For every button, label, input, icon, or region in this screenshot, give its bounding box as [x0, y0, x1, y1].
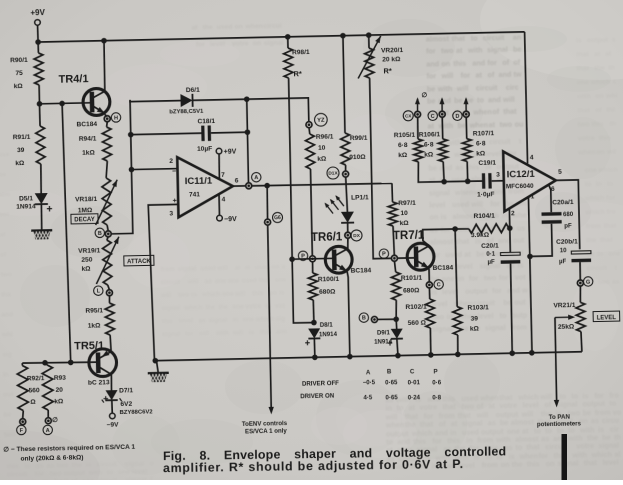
svg-text:in: in [447, 312, 454, 321]
variable resistor VR21 [576, 302, 585, 331]
svg-text:25kΩ: 25kΩ [558, 323, 575, 330]
svg-text:will: will [234, 290, 246, 297]
C18 row right [211, 131, 247, 134]
svg-text:10: 10 [400, 210, 408, 217]
VR20 wire top [368, 35, 370, 48]
wire G to VR21 [579, 286, 582, 302]
pin 7 wire [218, 154, 221, 179]
resistor R96 [305, 134, 315, 169]
pin6 wire [549, 185, 552, 213]
svg-text:ou: ou [515, 120, 524, 129]
svg-text:level: level [478, 311, 494, 320]
junction C20/ground rail [509, 350, 515, 356]
+9V terminal IC11 [216, 148, 237, 156]
svg-text:fro: fro [606, 209, 615, 216]
svg-text:of: of [502, 58, 510, 67]
junction vert247/D6 row [244, 96, 250, 102]
svg-text:for: for [492, 286, 502, 295]
svg-text:on: on [546, 459, 555, 468]
wire D1X to LP1 [346, 177, 348, 212]
svg-text:in: in [385, 403, 392, 412]
svg-text:and: and [498, 236, 511, 245]
svg-text:whi: whi [605, 93, 618, 100]
svg-text:to: to [191, 291, 197, 298]
svg-text:to: to [515, 443, 523, 452]
resistor R95 [105, 303, 114, 335]
svg-text:on: on [234, 23, 242, 30]
svg-text:o: o [150, 460, 154, 467]
svg-text:out: out [513, 236, 525, 245]
svg-text:A: A [254, 175, 258, 181]
svg-text:with: with [576, 93, 591, 100]
svg-text:wil: wil [606, 149, 616, 156]
svg-text:two: two [598, 279, 610, 286]
svg-text:and: and [439, 163, 452, 172]
node YZ terminal [306, 122, 312, 128]
junction P6 [289, 256, 295, 262]
wire VR19 to L [108, 285, 110, 290]
svg-text:TR7/1: TR7/1 [393, 230, 425, 243]
svg-text:kΩ: kΩ [15, 160, 25, 167]
wire DX to TR6 collector [347, 238, 350, 249]
svg-text:a: a [281, 264, 285, 271]
svg-text:680: 680 [563, 211, 574, 218]
svg-text:TR6/1: TR6/1 [311, 231, 343, 244]
svg-text:as: as [591, 416, 599, 425]
node D1X terminal [343, 171, 349, 177]
svg-text:of: of [513, 58, 521, 67]
svg-text:R*: R* [293, 69, 302, 78]
svg-text:10: 10 [560, 247, 568, 254]
svg-text:−9V: −9V [107, 422, 120, 429]
svg-text:that: that [442, 402, 456, 411]
svg-text:C: C [410, 368, 415, 375]
svg-text:6·8: 6·8 [476, 140, 486, 147]
R98 vertical [287, 37, 289, 48]
C20b bottom wire [579, 262, 581, 280]
svg-text:kΩ: kΩ [398, 152, 408, 159]
svg-text:on: on [269, 290, 277, 297]
TR7 emitter wire [428, 269, 430, 282]
TR5 collector to D7 [110, 374, 113, 390]
svg-text:R93: R93 [54, 375, 67, 382]
svg-text:us: us [517, 224, 526, 233]
svg-text:circuit: circuit [97, 461, 118, 468]
svg-text:to: to [500, 311, 508, 320]
svg-text:sig: sig [276, 316, 285, 323]
svg-text:will: will [440, 71, 453, 80]
svg-text:circu: circu [602, 416, 619, 425]
svg-text:with: with [437, 84, 453, 93]
svg-text:in: in [3, 371, 9, 378]
svg-text:level: level [456, 262, 472, 271]
svg-text:for: for [185, 330, 194, 337]
svg-text:as: as [205, 278, 213, 285]
svg-text:G6: G6 [274, 215, 281, 221]
node P6 circle [298, 251, 308, 261]
svg-text:910Ω: 910Ω [349, 154, 366, 161]
svg-text:µF: µF [487, 259, 495, 266]
svg-text:4·5: 4·5 [363, 394, 373, 401]
wire R96 to P6 [311, 169, 313, 256]
svg-text:two: two [57, 462, 69, 469]
junction vert131/C18 row [128, 132, 134, 138]
node G terminal [577, 280, 583, 286]
ground below D5 [31, 230, 52, 239]
R104 left wire [455, 228, 469, 230]
svg-text:VR18/1: VR18/1 [75, 196, 97, 203]
junction pin3/ground rail [152, 358, 158, 364]
resistor R99 [341, 133, 350, 165]
svg-text:this: this [592, 121, 604, 128]
zener diode D7 [102, 390, 122, 403]
wire B2 to D9 [395, 319, 397, 329]
junction R107/C19 row [465, 178, 471, 184]
junction R90/R91/base [37, 101, 43, 107]
svg-text:kΩ: kΩ [14, 83, 24, 90]
svg-text:level: level [442, 287, 458, 296]
svg-text:and: and [1, 311, 13, 318]
R100 wire top [311, 262, 313, 273]
svg-text:be: be [476, 249, 485, 258]
TR6 base wire [292, 257, 333, 260]
node C2 terminal [439, 111, 445, 117]
svg-text:only (20kΩ & 6·8kΩ): only (20kΩ & 6·8kΩ) [20, 454, 83, 462]
svg-text:the: the [205, 304, 215, 311]
node DX circle [351, 230, 362, 241]
svg-text:with: with [467, 45, 483, 54]
svg-text:and: and [488, 95, 501, 104]
svg-text:A: A [46, 428, 50, 434]
svg-text:as: as [36, 463, 44, 470]
R106 wire top [441, 117, 443, 139]
svg-text:which: which [584, 195, 604, 202]
svg-text:R*: R* [383, 66, 392, 75]
svg-text:10: 10 [318, 145, 326, 152]
junction rail/VR20 [366, 32, 372, 38]
wire rail to IC12 pin4 [525, 32, 528, 164]
svg-text:kΩ: kΩ [54, 398, 64, 405]
svg-text:−9V: −9V [224, 216, 237, 223]
svg-text:R105/1: R105/1 [394, 132, 416, 139]
node P6 terminal [309, 256, 315, 262]
VR19 arrow [95, 237, 119, 284]
svg-text:on: on [429, 212, 438, 221]
svg-text:to: to [107, 469, 114, 476]
svg-text:with: with [88, 469, 103, 476]
svg-text:signal: signal [462, 418, 483, 427]
svg-text:kΩ: kΩ [476, 150, 486, 157]
svg-text:the: the [512, 460, 523, 469]
svg-text:R106/1: R106/1 [419, 131, 441, 138]
svg-text:at: at [464, 250, 471, 259]
svg-text:of: of [544, 400, 552, 409]
svg-text:and: and [507, 286, 520, 295]
svg-text:the: the [202, 24, 213, 31]
svg-text:s: s [612, 37, 616, 44]
svg-text:this: this [453, 59, 466, 68]
svg-text:P: P [382, 252, 386, 258]
svg-text:BC184: BC184 [351, 267, 372, 274]
svg-text:R100/1: R100/1 [318, 276, 340, 283]
node D2 arrow [463, 97, 468, 111]
svg-text:signal: signal [264, 40, 284, 47]
LEVEL box [593, 311, 620, 322]
svg-text:output: output [64, 470, 86, 477]
resistor R100 [308, 273, 317, 300]
transistor TR6 BC184 [325, 246, 352, 273]
svg-text:R107/1: R107/1 [473, 130, 495, 137]
svg-text:votre: votre [578, 135, 595, 142]
svg-text:signal: signal [598, 441, 619, 450]
svg-text:this: this [162, 318, 174, 325]
C19 to pin3 [492, 180, 504, 182]
svg-text:that: that [420, 419, 434, 428]
VR21 bottom wire [580, 332, 583, 352]
svg-text:which: which [598, 167, 618, 174]
svg-text:level: level [210, 41, 225, 48]
TR6 emitter wire [347, 272, 350, 357]
svg-text:vot: vot [275, 303, 286, 310]
svg-text:this: this [466, 162, 479, 171]
svg-text:at: at [442, 108, 449, 117]
svg-text:and: and [426, 59, 439, 68]
TR4 emitter wire [105, 114, 107, 117]
svg-text:1MΩ: 1MΩ [78, 207, 93, 214]
lamp LP1 [324, 195, 354, 223]
junction rail/R90 [35, 39, 41, 45]
svg-text:out: out [3, 391, 14, 398]
svg-text:VR19/1: VR19/1 [78, 247, 100, 254]
svg-text:from: from [511, 322, 527, 331]
node P7 terminal [391, 255, 397, 261]
resistor R92 [17, 365, 28, 410]
svg-text:level: level [429, 200, 445, 209]
svg-text:BZY88C6V2: BZY88C6V2 [120, 409, 154, 416]
svg-text:DECAY: DECAY [74, 217, 95, 223]
svg-text:at: at [488, 401, 495, 410]
ToPAN arrowhead [554, 400, 560, 408]
svg-text:for: for [426, 71, 436, 80]
output row [252, 183, 392, 186]
svg-text:LP1/1: LP1/1 [351, 194, 369, 201]
svg-text:one: one [243, 316, 255, 323]
pin2 wire [508, 208, 511, 252]
R102 wire bottom [429, 328, 432, 355]
svg-text:almost: almost [125, 476, 148, 480]
R105 wire bottom [418, 160, 483, 182]
svg-text:two: two [4, 431, 15, 438]
svg-text:ES/VCA 1 only: ES/VCA 1 only [245, 428, 288, 436]
resistor R101 [391, 272, 400, 300]
svg-text:to: to [471, 33, 479, 42]
svg-text:that: that [604, 223, 617, 230]
svg-text:two: two [461, 402, 474, 411]
svg-text:7: 7 [221, 172, 225, 179]
pin2 row [131, 168, 177, 171]
junction R102/ground rail [428, 352, 434, 358]
wire R92 to F [22, 411, 25, 419]
node B2 stub [377, 318, 396, 321]
node A2 terminal [45, 418, 51, 424]
op-amp IC12 MFC6040 [503, 150, 556, 211]
svg-text:level: level [485, 149, 501, 158]
svg-text:2: 2 [511, 210, 515, 217]
svg-text:use: use [0, 151, 10, 158]
transistor TR7 BC184 [407, 243, 434, 270]
svg-text:DRIVER OFF: DRIVER OFF [302, 380, 339, 388]
svg-text:for: for [35, 471, 45, 478]
ToENV arrowhead [268, 407, 274, 415]
svg-text:output: output [465, 286, 488, 295]
svg-text:C20b/1: C20b/1 [556, 238, 578, 245]
junction pin1/C20a [527, 254, 533, 260]
svg-text:signal: signal [432, 324, 453, 333]
svg-text:output: output [582, 399, 605, 408]
svg-text:from: from [482, 460, 498, 469]
op-amp IC11 741 [177, 156, 233, 217]
svg-text:C20a/1: C20a/1 [552, 199, 574, 206]
svg-text:10µF: 10µF [197, 146, 212, 153]
R106 wire bottom [442, 162, 445, 182]
svg-text:which: which [584, 209, 604, 216]
svg-text:as: as [488, 418, 496, 427]
svg-text:0·65: 0·65 [385, 379, 398, 386]
svg-text:for: for [606, 195, 616, 202]
svg-text:two: two [441, 46, 454, 55]
svg-text:this: this [527, 459, 540, 468]
wire B to VR19 [107, 237, 109, 240]
svg-text:be: be [454, 96, 463, 105]
svg-text:signal: signal [161, 305, 180, 312]
svg-text:one: one [232, 303, 244, 310]
svg-text:alm: alm [276, 329, 287, 336]
svg-text:used: used [452, 200, 469, 209]
svg-text:almost: almost [511, 417, 535, 426]
svg-text:−0·5: −0·5 [363, 379, 376, 386]
TR7 base wire [397, 257, 415, 259]
svg-text:TR4/1: TR4/1 [58, 73, 88, 86]
svg-text:when: when [454, 188, 474, 197]
resistor R90 [34, 53, 43, 85]
node G6 circle [272, 212, 282, 222]
svg-text:6V2: 6V2 [120, 401, 132, 408]
wire B to vert131 [108, 100, 132, 234]
svg-text:in: in [596, 181, 602, 188]
node B2 terminal [371, 316, 377, 322]
svg-text:C: C [431, 114, 435, 120]
svg-text:c: c [613, 79, 617, 86]
pin 6 output wire [233, 185, 246, 187]
svg-text:tha: tha [1, 291, 11, 298]
svg-text:D9/1: D9/1 [377, 329, 391, 336]
figure caption line 1 [163, 444, 506, 463]
svg-text:VR21/1: VR21/1 [553, 302, 575, 309]
svg-text:250: 250 [81, 257, 92, 264]
node H terminal [104, 116, 110, 122]
R101 wire bottom [395, 300, 398, 319]
page rule bar bottom right [562, 434, 568, 480]
node C circle [434, 280, 444, 290]
ATTACK box [124, 255, 154, 266]
svg-text:be: be [427, 84, 436, 93]
resistor R102 [425, 299, 434, 328]
svg-text:one: one [118, 469, 130, 476]
svg-text:two: two [578, 121, 590, 128]
svg-text:alm: alm [0, 191, 10, 198]
svg-text:BC184: BC184 [76, 121, 97, 128]
svg-text:741: 741 [189, 191, 200, 198]
node B terminal [105, 231, 111, 237]
svg-text:for: for [460, 71, 470, 80]
svg-text:DX: DX [353, 233, 361, 239]
junction R93 top [42, 360, 48, 366]
svg-text:two: two [500, 120, 513, 129]
svg-text:be: be [427, 96, 436, 105]
resistor R106 [438, 139, 447, 162]
svg-text:level: level [522, 400, 538, 409]
node L circle [94, 286, 104, 296]
resistor R97 [388, 202, 397, 226]
capacitor C20 electrolytic [501, 252, 521, 264]
svg-text:R92/1: R92/1 [27, 375, 45, 382]
svg-text:out: out [514, 298, 526, 307]
svg-text:for: for [487, 58, 497, 67]
svg-text:votre: votre [576, 441, 594, 450]
svg-text:from: from [586, 223, 601, 230]
capacitor C19 [482, 173, 492, 189]
node H circle [111, 113, 121, 123]
svg-text:vot: vot [0, 211, 10, 218]
svg-text:R97/1: R97/1 [398, 200, 416, 207]
svg-text:for: for [426, 46, 436, 55]
svg-text:two: two [502, 249, 515, 258]
wire +9V to rail [37, 25, 40, 42]
diode D9 [387, 329, 403, 346]
svg-text:R104/1: R104/1 [473, 213, 495, 220]
node A2 circle [43, 425, 53, 435]
svg-text:one: one [442, 274, 455, 283]
svg-text:4: 4 [530, 154, 534, 161]
svg-text:that: that [456, 237, 470, 246]
wire vert131 top to D6 row [130, 99, 181, 102]
node CX terminal [415, 111, 421, 117]
resistor R105 [414, 139, 423, 162]
svg-text:almost: almost [426, 34, 450, 43]
svg-text:will: will [470, 199, 483, 208]
svg-text:w: w [521, 285, 528, 294]
svg-text:be: be [0, 171, 7, 178]
variable resistor VR20 [365, 48, 374, 78]
TR4 base wire [39, 103, 90, 104]
node C2 circle [428, 111, 438, 121]
svg-text:level: level [603, 458, 619, 467]
C20 bottom wire [510, 264, 512, 354]
svg-text:which: which [183, 304, 202, 311]
resistor R107 [462, 139, 471, 162]
svg-text:is: is [265, 303, 271, 310]
svg-text:3: 3 [496, 172, 500, 179]
svg-text:votre: votre [499, 401, 517, 410]
R107 wire bottom [466, 161, 469, 181]
svg-text:signal: signal [178, 265, 197, 272]
wire R90 bottom [38, 85, 40, 104]
node CX arrow [415, 97, 420, 111]
svg-text:R103/1: R103/1 [467, 304, 489, 311]
diode D8 [305, 328, 321, 345]
junction base/vert62 [59, 101, 65, 107]
svg-text:circuit: circuit [476, 83, 498, 92]
